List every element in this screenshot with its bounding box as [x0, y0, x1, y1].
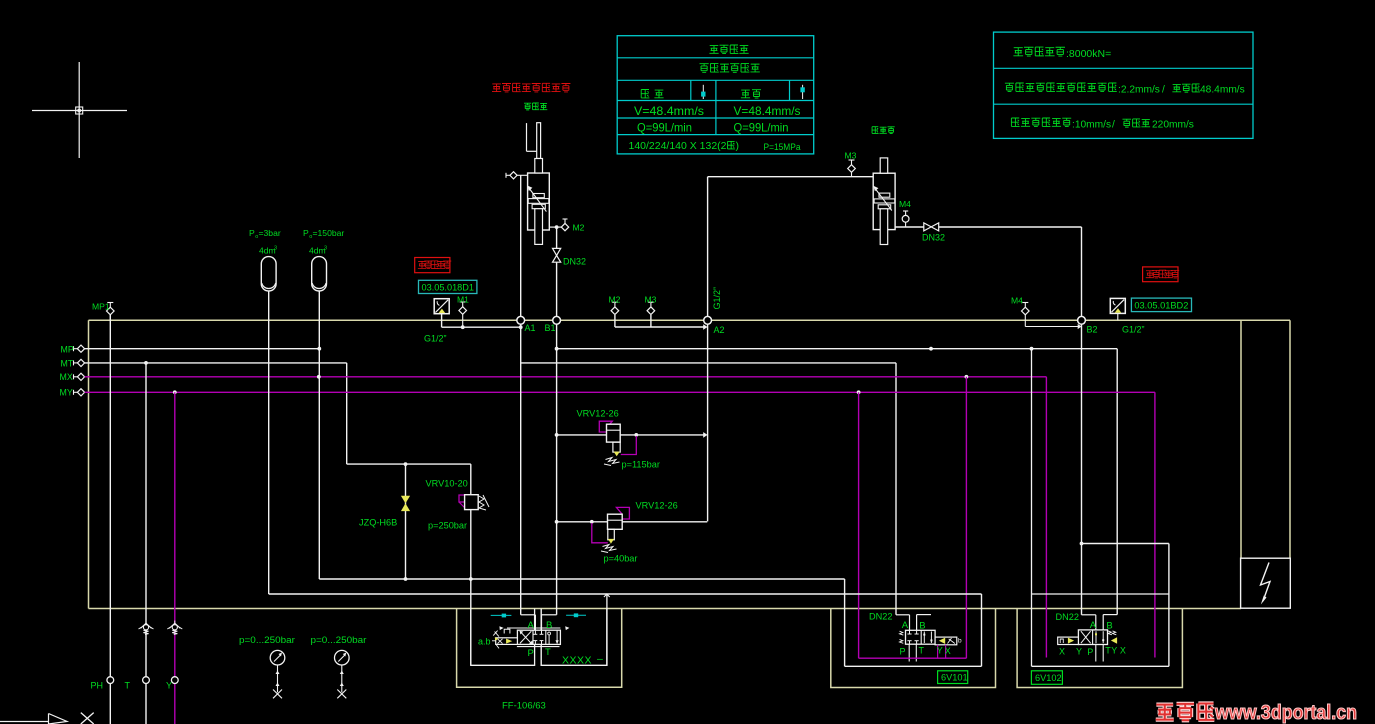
svg-text:M3: M3: [845, 151, 857, 161]
svg-text:A: A: [1090, 620, 1097, 631]
wire MP drop right end: [1116, 349, 1118, 615]
svg-text:PH: PH: [91, 681, 104, 691]
label operator side: [524, 103, 547, 110]
table row3 press: [741, 90, 761, 98]
wire G1/2 M1 line: [442, 314, 521, 329]
svg-text:P: P: [249, 228, 255, 238]
pressure transducer 03.05.018D1 symbol: [434, 299, 449, 314]
svg-text:G1/2”: G1/2”: [712, 287, 722, 310]
info box top right: [994, 32, 1254, 138]
test coupling MX: [74, 373, 85, 380]
wire yellow right drop A: [1240, 320, 1242, 558]
wire A2 column: [707, 177, 709, 522]
wire JZQ drop: [405, 464, 407, 579]
pressure transducer 03.05.01BD2 symbol: [1110, 298, 1125, 320]
test coupling M1: [457, 295, 469, 328]
svg-text:T: T: [545, 647, 551, 658]
svg-text:X: X: [945, 646, 951, 656]
label DN22 6V102: [1056, 612, 1080, 622]
svg-text:p=0...250bar: p=0...250bar: [239, 635, 295, 645]
svg-text:B2: B2: [1087, 325, 1098, 335]
label 03.05.01BD2: [1131, 298, 1191, 312]
svg-text:VRV10-20: VRV10-20: [426, 479, 468, 489]
info row1: [1013, 47, 1111, 60]
svg-text:/: /: [1162, 85, 1165, 96]
wire yellow left drop: [88, 320, 90, 608]
valve VRV10-20: [426, 479, 490, 531]
wire 6V101 MY path: [859, 657, 967, 659]
svg-text:B: B: [546, 620, 552, 631]
test coupling MY: [74, 389, 85, 396]
label A1: [525, 323, 536, 333]
svg-text:=150bar: =150bar: [313, 228, 345, 238]
label pressure sensor red 1: [415, 258, 452, 273]
test coupling M2 mid: [609, 295, 621, 315]
svg-text:DN22: DN22: [1056, 612, 1080, 622]
wire main pressure header (yellow): [89, 319, 1291, 321]
wire 6V102 T stub: [1102, 645, 1104, 662]
wire MX bus (magenta): [85, 375, 1047, 379]
svg-text:03.05.01BD2: 03.05.01BD2: [1134, 301, 1188, 311]
svg-text:Q=99L/min: Q=99L/min: [637, 121, 692, 135]
label G1/2 A1: [424, 334, 447, 344]
svg-text:/: /: [1112, 120, 1115, 131]
svg-text:G1/2”: G1/2”: [424, 334, 447, 344]
wire VRV12-26 upper line: [557, 432, 708, 438]
table row3 open: [641, 90, 663, 98]
svg-text:3: 3: [274, 246, 277, 252]
wire MY drop at 6V101: [858, 392, 860, 658]
test coupling M3 mid: [645, 295, 657, 315]
svg-text:3: 3: [324, 246, 327, 252]
svg-text:T: T: [919, 646, 925, 656]
wire MT drop hat 6V101: [896, 615, 910, 631]
wire 6V101 X pilot stub: [945, 645, 947, 658]
svg-text:6V101: 6V101: [941, 673, 968, 683]
wire drain line y579: [319, 577, 844, 581]
label 03.05.018D1: [419, 280, 477, 293]
svg-text:P: P: [900, 647, 906, 657]
label DN22 6V101: [869, 612, 893, 622]
valve FF pilot stage: [492, 626, 569, 648]
svg-text:140/224/140 X 132(2: 140/224/140 X 132(2: [629, 140, 727, 152]
wire MY drop at 6V102: [1154, 392, 1156, 657]
wire MY bus (magenta): [85, 390, 1155, 394]
flow arrow cyan left: [491, 614, 512, 618]
watermark: [1156, 701, 1357, 724]
test coupling cyl left: [506, 172, 528, 179]
svg-text:M2: M2: [573, 223, 585, 233]
wire A1 column: [519, 175, 523, 615]
valve 6V101 pilot: [935, 637, 962, 645]
label sensor red: [492, 83, 570, 92]
svg-text:A1: A1: [525, 323, 536, 333]
svg-text:M4: M4: [899, 199, 911, 209]
label G1/2 A2 vertical: [712, 287, 722, 310]
svg-text:M3: M3: [645, 295, 657, 305]
svg-text:Q=99L/min: Q=99L/min: [734, 121, 789, 135]
wire MT drop right: [895, 363, 897, 615]
label 6V102 AB: [1090, 620, 1113, 632]
label FF-106/63: [502, 701, 546, 712]
wire 6V101 T stub: [915, 644, 917, 661]
svg-text:V=48.4mm/s: V=48.4mm/s: [734, 104, 801, 118]
label 6V101 ports: [900, 646, 951, 657]
valve VRV12-26 lower: [592, 501, 678, 564]
svg-text:P: P: [303, 228, 309, 238]
label B1: [545, 323, 556, 333]
wire B2 drop hat 6V102: [1082, 544, 1096, 631]
svg-text:DN32: DN32: [563, 256, 586, 266]
cylinder left (operator side): [527, 123, 550, 245]
table row Q values: [637, 121, 789, 135]
svg-text:B: B: [919, 621, 925, 632]
valve 6V102 body: [1078, 630, 1107, 645]
svg-text:P=15MPa: P=15MPa: [764, 142, 802, 153]
svg-text:Y: Y: [1111, 646, 1117, 656]
wire accumulator2 drop: [317, 291, 321, 580]
svg-text:p=250bar: p=250bar: [428, 521, 467, 531]
svg-text:B1: B1: [545, 323, 556, 333]
wire T line: [144, 361, 148, 724]
wire 6V101 box bottom white: [845, 665, 982, 667]
wire cyl left bottom port: [549, 226, 561, 228]
label pressure sensor red 2: [1143, 267, 1180, 282]
cylinder right (drive side): [873, 158, 895, 245]
svg-text:03.05.018D1: 03.05.018D1: [422, 283, 475, 293]
wire 6V101 Y pilot stub: [937, 645, 939, 658]
wire yellow right drop B: [1289, 320, 1291, 558]
valve 6V101 body: [900, 630, 936, 644]
wire PH line: [109, 315, 111, 724]
check valve Y line: [167, 621, 182, 635]
check valve T line: [139, 621, 154, 635]
port T: [125, 677, 150, 691]
svg-text:M1: M1: [457, 295, 469, 305]
svg-text:M2: M2: [609, 295, 621, 305]
label A2: [714, 325, 725, 335]
node A1: [517, 316, 525, 324]
wire MX drop at 6V101: [965, 377, 967, 658]
svg-text:B: B: [1106, 621, 1112, 632]
svg-text:DN32: DN32: [922, 233, 945, 243]
6V102 yellow box: [1017, 609, 1182, 688]
valve FF-106/63 body: [507, 628, 560, 647]
valve JZQ-H6B: [359, 496, 410, 528]
wire B1 column: [555, 225, 559, 615]
svg-text:MX: MX: [60, 372, 73, 382]
6V101 yellow box: [831, 609, 996, 688]
svg-text:VRV12-26: VRV12-26: [636, 501, 678, 511]
svg-text:Y: Y: [1076, 647, 1082, 657]
svg-text:=3bar: =3bar: [259, 228, 281, 238]
valve VRV12-26 upper: [577, 409, 660, 470]
svg-text:b: b: [958, 638, 962, 645]
wire bottom yellow header: [89, 608, 1242, 610]
valve 6V102 pilot: [1058, 631, 1117, 645]
label MX: [60, 372, 73, 382]
pressure gauge 2: [311, 635, 367, 698]
svg-text:MP1: MP1: [92, 302, 110, 312]
table row1 label: [709, 45, 748, 54]
label XXXX: [562, 653, 603, 667]
svg-text:A: A: [528, 620, 535, 631]
valve DN32 right (bowtie): [922, 223, 945, 243]
node B2: [1078, 316, 1086, 324]
test coupling M2 cyl: [561, 219, 584, 233]
svg-text:P: P: [528, 648, 534, 659]
test coupling MT: [74, 359, 85, 366]
wire FF A-port hat: [521, 615, 536, 630]
svg-text:G1/2”: G1/2”: [1122, 324, 1145, 334]
svg-text:VRV12-26: VRV12-26: [577, 409, 619, 419]
test coupling M4 cyl: [899, 199, 911, 227]
svg-text:p=115bar: p=115bar: [622, 460, 660, 470]
table row V values: [634, 104, 801, 118]
wire 6V102 P stub: [1095, 645, 1097, 662]
node A2: [704, 316, 712, 324]
wire B2 column: [1080, 227, 1084, 545]
svg-text::10mm/s: :10mm/s: [1072, 120, 1111, 131]
svg-text:220mm/s: 220mm/s: [1152, 120, 1194, 131]
wire A2 to drive cylinder: [708, 176, 874, 178]
accumulator P0=150bar: [303, 228, 344, 291]
svg-text:p=40bar: p=40bar: [604, 554, 638, 564]
wire MP drop hat 6V101: [917, 615, 931, 631]
svg-text:–: –: [597, 653, 603, 665]
svg-text:DN22: DN22: [869, 612, 893, 622]
svg-text:A: A: [902, 620, 909, 631]
test coupling M4 at B2: [1011, 296, 1082, 330]
wire MP end hat 6V102: [1103, 615, 1117, 631]
label MT: [61, 358, 74, 368]
svg-text:FF-106/63: FF-106/63: [502, 701, 546, 712]
table top (cyan grid): [617, 36, 814, 154]
wire MP bus left: [85, 348, 320, 350]
svg-text:www.3dportal.cn: www.3dportal.cn: [1214, 701, 1357, 724]
svg-text:Y: Y: [937, 646, 943, 656]
label a.b: [478, 637, 491, 647]
svg-text:Y: Y: [166, 681, 172, 691]
test coupling MP: [74, 345, 85, 352]
svg-text:XXXX: XXXX: [562, 655, 592, 667]
crosshair cursor: [32, 62, 127, 158]
label 6V102 ports: [1059, 646, 1126, 658]
label 6V101: [938, 671, 968, 684]
leak indicator box: [1241, 558, 1291, 608]
label 6V102: [1031, 671, 1062, 685]
label 6V101 AB: [902, 620, 926, 632]
wire tank return line: [269, 594, 982, 597]
svg-text:MY: MY: [60, 388, 73, 398]
svg-text:X: X: [1059, 647, 1065, 657]
svg-text:p=0...250bar: p=0...250bar: [311, 635, 367, 645]
label drive side: [872, 127, 895, 134]
wire accumulator1 drop: [268, 291, 270, 595]
wire MX drop at 6V102: [1045, 377, 1047, 658]
wire VRV10-20 feed line: [347, 462, 471, 466]
wire MP bus right: [555, 347, 1118, 351]
table row2 label: [700, 64, 760, 73]
svg-text:M4: M4: [1011, 296, 1023, 306]
label MP: [61, 344, 74, 354]
FF valve yellow box: [457, 609, 622, 688]
wire 6V102 white box: [1032, 349, 1169, 667]
svg-text:48.4mm/s: 48.4mm/s: [1200, 85, 1245, 96]
svg-text::2.2mm/s: :2.2mm/s: [1118, 85, 1160, 96]
info row2: [1005, 83, 1245, 96]
wire MT bus left: [85, 362, 347, 364]
wire B2 crossover: [1082, 544, 1169, 667]
FF valve white sub-box left: [471, 609, 535, 666]
svg-text:P: P: [1087, 647, 1093, 657]
port PH: [91, 677, 114, 691]
label MY: [60, 388, 73, 398]
svg-text:X: X: [1120, 646, 1126, 656]
test coupling M3 top: [845, 151, 857, 177]
wire VRV10-20 drop: [470, 464, 472, 665]
accumulator P0=3bar: [249, 228, 281, 291]
svg-text:V=48.4mm/s: V=48.4mm/s: [634, 104, 704, 118]
node B1: [553, 316, 561, 324]
label G1/2 B2: [1122, 324, 1145, 334]
wire M2 M3 to A2: [615, 315, 708, 330]
svg-text:T: T: [125, 681, 131, 691]
svg-text:): ): [736, 140, 740, 152]
pressure gauge 1: [239, 635, 295, 698]
wire FF B-port hat: [542, 615, 557, 630]
table row bottom: [629, 140, 802, 153]
wire 6V101 box right side: [981, 594, 983, 666]
label FF ports: [528, 620, 553, 659]
wire MT bus right: [521, 362, 896, 364]
wire drive cyl port line: [895, 226, 1081, 228]
wire Y line (magenta): [174, 392, 176, 724]
svg-text:6V102: 6V102: [1035, 673, 1062, 683]
info row3: [1011, 118, 1194, 131]
svg-text:a.b: a.b: [478, 637, 491, 647]
svg-text:JZQ-H6B: JZQ-H6B: [359, 518, 397, 528]
wire MT drop to VRV10-20 feed: [346, 363, 348, 464]
flow arrow cyan right: [566, 613, 586, 617]
port Y: [166, 677, 178, 691]
wire 6V101 box left side: [844, 579, 846, 666]
FF valve white sub-box right: [541, 594, 607, 665]
wire 6V101 P stub: [908, 644, 910, 661]
label B2: [1087, 325, 1098, 335]
svg-text::8000kN=: :8000kN=: [1066, 48, 1111, 60]
svg-text:MP: MP: [61, 344, 74, 354]
valve DN32 left (hourglass): [553, 248, 587, 266]
bottom left arrow: [0, 713, 94, 724]
wire VRV12-26 lower line: [557, 520, 708, 524]
svg-text:MT: MT: [61, 358, 74, 368]
svg-text:A2: A2: [714, 325, 725, 335]
test coupling MP1: [92, 302, 114, 321]
